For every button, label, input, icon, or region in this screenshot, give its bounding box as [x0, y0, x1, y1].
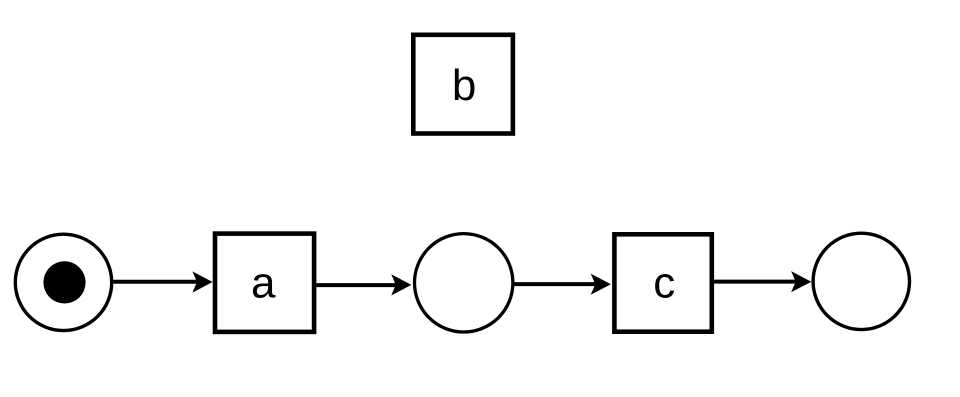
svg-text:a: a [251, 259, 276, 308]
place P2 [415, 234, 513, 332]
place P1 (initial place) [15, 234, 111, 330]
svg-text:b: b [452, 61, 476, 110]
arrowhead arc place P2 to transition c [591, 274, 611, 295]
transition c [614, 234, 711, 331]
transition a [215, 234, 314, 332]
token in place P1 [43, 261, 85, 303]
wire arc transition a to place P2 [316, 283, 397, 287]
arrowhead arc transition a to place P2 [391, 274, 411, 295]
arrowhead arc P1 to transition a [192, 271, 212, 292]
arrowhead arc transition c to place P3 [791, 271, 811, 292]
svg-text:c: c [653, 259, 675, 308]
wire arc P1 to transition a [113, 280, 198, 284]
wire arc transition c to place P3 [714, 280, 797, 284]
wire arc place P2 to transition c [514, 282, 597, 286]
place P3 [813, 233, 909, 329]
transition b [413, 35, 513, 134]
